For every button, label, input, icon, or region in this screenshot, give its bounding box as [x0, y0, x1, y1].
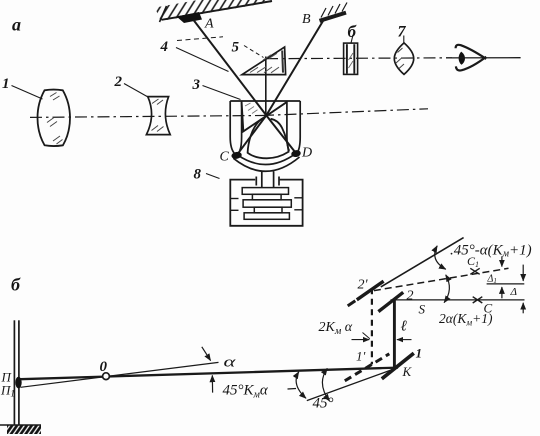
- svg-text:2α(Kм+1): 2α(Kм+1): [439, 311, 493, 328]
- svg-text:1: 1: [416, 346, 423, 361]
- svg-text:A: A: [204, 17, 214, 32]
- svg-text:D: D: [301, 146, 312, 161]
- svg-text:B: B: [302, 12, 311, 27]
- svg-text:C: C: [220, 150, 230, 165]
- svg-text:α: α: [224, 354, 237, 370]
- svg-text:4: 4: [160, 39, 169, 55]
- svg-text:б: б: [11, 275, 21, 295]
- svg-text:0: 0: [100, 359, 108, 375]
- svg-text:5: 5: [232, 40, 240, 56]
- svg-text:Δ: Δ: [510, 286, 517, 298]
- svg-text:1': 1': [356, 349, 366, 364]
- svg-text:.45°-α(Kм+1): .45°-α(Kм+1): [450, 243, 532, 260]
- svg-text:2Kм α: 2Kм α: [319, 320, 353, 337]
- svg-text:ℓ: ℓ: [401, 319, 407, 335]
- svg-text:8: 8: [194, 167, 202, 183]
- svg-text:45°Kмα: 45°Kмα: [223, 383, 269, 401]
- svg-text:45°: 45°: [313, 396, 334, 412]
- svg-text:K: K: [402, 364, 413, 379]
- svg-text:2': 2': [358, 278, 369, 293]
- svg-text:Δ1: Δ1: [487, 274, 497, 286]
- svg-text:2: 2: [407, 289, 414, 304]
- svg-text:2: 2: [114, 74, 123, 90]
- svg-text:a: a: [12, 15, 21, 35]
- svg-text:7: 7: [398, 24, 407, 41]
- svg-text:П1: П1: [0, 383, 15, 399]
- svg-text:S: S: [419, 302, 426, 317]
- svg-text:1: 1: [2, 76, 10, 92]
- svg-text:3: 3: [192, 77, 201, 93]
- svg-text:б: б: [348, 22, 358, 41]
